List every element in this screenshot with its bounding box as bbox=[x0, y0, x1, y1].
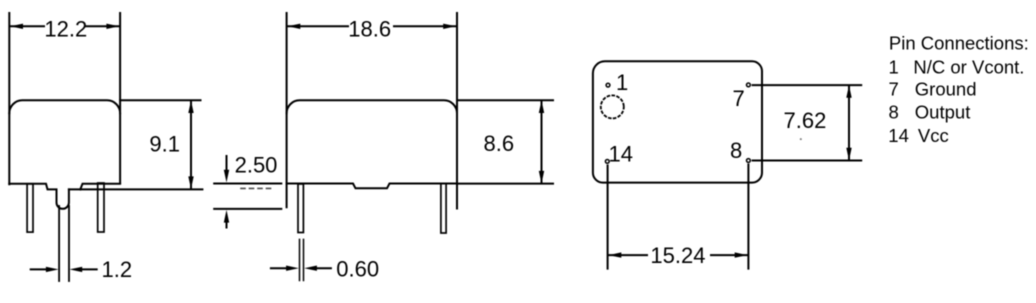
dimension 18.6: dimension line left segment bbox=[288, 25, 348, 27]
svg-text:1: 1 bbox=[889, 56, 899, 77]
svg-text:7.62: 7.62 bbox=[784, 108, 827, 133]
front view: right pin bbox=[441, 184, 446, 234]
dimension 12.2: right arrowhead bbox=[106, 24, 119, 29]
dimension 2.50: lower reference line bbox=[214, 208, 281, 210]
dimension 7.62: top arrowhead bbox=[846, 85, 851, 98]
dimension 9.1: bottom arrowhead bbox=[188, 176, 193, 189]
side view: left pin bbox=[27, 184, 33, 232]
dimension 15.24: left extension line from pin 14 bbox=[607, 166, 609, 269]
dimension 8.6: top extension line bbox=[457, 99, 553, 101]
dimension 8.6: bottom arrowhead bbox=[539, 171, 544, 184]
side view: bottom-right step up and right bottom edge bbox=[80, 184, 120, 190]
side view: right pin bbox=[98, 183, 104, 232]
svg-text:0.60: 0.60 bbox=[336, 257, 379, 282]
dimension 1.2: dimension line right segment bbox=[81, 268, 97, 270]
dimension 12.2: dimension line left segment bbox=[11, 25, 44, 27]
dimension 0.60: left extension line below pin bbox=[299, 239, 301, 280]
svg-text:Vcc: Vcc bbox=[918, 125, 949, 146]
svg-text:9.1: 9.1 bbox=[149, 131, 180, 156]
svg-text:1.2: 1.2 bbox=[102, 257, 133, 282]
stray mark bbox=[800, 138, 802, 140]
svg-text:N/C or Vcont.: N/C or Vcont. bbox=[913, 56, 1024, 77]
dimension 7.62: vertical dimension line bbox=[848, 86, 850, 159]
dimension 2.50: lower arrow tail bbox=[226, 222, 228, 228]
bottom view: package outline rounded rectangle bbox=[593, 61, 762, 182]
dimension 2.50: upper reference line bbox=[214, 183, 281, 185]
dimension 7.62: top extension line from pin 7 bbox=[753, 84, 862, 86]
dimension 1.2: dimension line left segment bbox=[31, 268, 47, 270]
dimension 9.1: top extension line bbox=[120, 99, 200, 101]
front view: left pin bbox=[298, 184, 303, 233]
front view: package body top outline with rounded corners bbox=[287, 100, 457, 113]
bottom view: pin 14 pad circle bbox=[605, 160, 609, 164]
dimension 15.24: dimension line right segment bbox=[711, 254, 748, 256]
svg-text:7: 7 bbox=[733, 86, 745, 111]
dimension 18.6: right arrowhead bbox=[443, 24, 456, 29]
bottom view: pin 1 pad circle bbox=[606, 83, 610, 87]
dimension 2.50: upper arrowhead pointing down bbox=[224, 170, 229, 183]
dimension 7.62: bottom extension line from pin 8 bbox=[753, 160, 862, 162]
svg-text:8.6: 8.6 bbox=[484, 131, 515, 156]
svg-text:1: 1 bbox=[616, 70, 628, 95]
dimension 18.6: left arrowhead bbox=[288, 24, 301, 29]
svg-text:14: 14 bbox=[888, 125, 909, 146]
dimension 8.6: bottom extension line bbox=[457, 183, 553, 185]
dimension 15.24: dimension line left segment bbox=[609, 254, 647, 256]
dimension 2.50: upper arrow tail bbox=[226, 156, 228, 171]
svg-text:15.24: 15.24 bbox=[650, 243, 705, 268]
side view: center pin left edge bbox=[58, 206, 60, 281]
svg-text:8: 8 bbox=[730, 138, 742, 163]
svg-text:8: 8 bbox=[889, 102, 899, 123]
side view: right extension line / body right edge bbox=[119, 13, 121, 183]
bottom view: dotted index circle bbox=[601, 95, 624, 118]
dimension 18.6: dimension line right segment bbox=[394, 25, 455, 27]
dimension 2.50: lower arrowhead pointing up bbox=[224, 210, 229, 223]
dimension 7.62: bottom arrowhead bbox=[846, 148, 851, 161]
dimension 15.24: left arrowhead bbox=[609, 252, 622, 257]
dimension 1.2: left arrowhead pointing right bbox=[46, 267, 59, 272]
svg-text:12.2: 12.2 bbox=[44, 17, 87, 42]
dimension 15.24: right arrowhead bbox=[735, 252, 748, 257]
svg-text:Ground: Ground bbox=[915, 79, 977, 100]
side view: package body top outline with rounded corners bbox=[9, 100, 120, 113]
dimension 8.6: top arrowhead bbox=[539, 100, 544, 113]
dimension 2.50: faint hidden seating line bbox=[241, 187, 274, 189]
dimension 12.2: dimension line right segment bbox=[86, 25, 119, 27]
svg-text:Output: Output bbox=[915, 102, 971, 123]
svg-text:18.6: 18.6 bbox=[348, 17, 391, 42]
dimension 9.1: vertical dimension line bbox=[190, 102, 192, 188]
dimension 12.2: left arrowhead bbox=[10, 24, 23, 29]
side view: center pin right edge bbox=[68, 206, 70, 281]
svg-text:2.50: 2.50 bbox=[235, 153, 278, 178]
dimension 0.60: right extension line below pin bbox=[303, 239, 305, 280]
dimension 1.2: right arrowhead pointing left bbox=[70, 267, 83, 272]
dimension 8.6: vertical dimension line bbox=[541, 102, 543, 183]
front view: right extension line / body right edge / right skirt bbox=[456, 13, 458, 209]
dimension 15.24: right extension line from pin 8 bbox=[747, 165, 749, 269]
dimension 0.60: dimension line left segment bbox=[271, 267, 287, 269]
dimension 9.1: top arrowhead bbox=[188, 100, 193, 113]
bottom view: pin 7 pad circle bbox=[747, 83, 751, 87]
front view: left extension line / body left edge / left skirt bbox=[286, 13, 288, 207]
side view: seating plane reference line extended right for 9.1 dimension bbox=[69, 188, 203, 190]
dimension 0.60: dimension line right segment bbox=[316, 267, 331, 269]
bottom view: pin 8 pad circle bbox=[747, 159, 751, 163]
svg-text:Pin Connections:: Pin Connections: bbox=[889, 33, 1029, 54]
side view: left extension line / body left edge bbox=[8, 13, 10, 184]
dimension 0.60: left arrowhead pointing right bbox=[286, 266, 299, 271]
dimension 0.60: right arrowhead pointing left bbox=[304, 266, 317, 271]
svg-text:7: 7 bbox=[889, 79, 899, 100]
side view: package bottom-left edge and center boss with rounded tip bbox=[9, 184, 69, 209]
front view: package bottom edge with center recess bbox=[287, 184, 457, 189]
svg-text:14: 14 bbox=[609, 141, 633, 166]
